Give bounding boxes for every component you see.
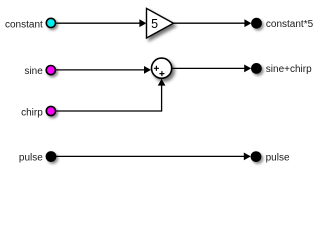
svg-text:pulse: pulse: [266, 152, 290, 163]
svg-text:5: 5: [151, 17, 158, 31]
node pulse left (black source port): [46, 152, 55, 161]
wire pulse -> pulse: [56, 155, 244, 157]
arrowhead into sum left port: [144, 66, 151, 74]
node chirp (magenta source port): [46, 106, 55, 115]
gain block U1 (triangle, value 5): [147, 8, 174, 38]
node constant (cyan source port): [46, 18, 55, 27]
svg-text:sine: sine: [24, 66, 43, 77]
arrowhead into sum bottom port: [158, 79, 166, 86]
arrowhead into right pulse: [244, 153, 251, 161]
arrowhead into sine+chirp: [244, 65, 251, 73]
svg-text:constant: constant: [5, 19, 43, 30]
node sine (magenta source port): [46, 66, 55, 75]
node sine+chirp (black sink port): [252, 64, 261, 73]
wire sine -> sum: [56, 69, 145, 71]
svg-text:pulse: pulse: [19, 153, 43, 164]
sum plus sign (left input): [154, 66, 159, 71]
arrowhead into gain: [139, 19, 146, 27]
node constant*5 (black sink port): [252, 19, 261, 28]
sum plus sign (bottom input): [159, 71, 164, 76]
wire chirp horizontal segment: [56, 110, 161, 112]
node pulse right (black sink port): [251, 152, 260, 161]
wire gain -> constant*5: [174, 22, 246, 24]
arrowhead into constant*5: [244, 19, 251, 27]
svg-text:chirp: chirp: [21, 107, 43, 118]
svg-text:sine+chirp: sine+chirp: [266, 64, 312, 75]
wire chirp vertical segment: [161, 85, 163, 111]
sum block (circle): [152, 58, 172, 78]
wire constant -> gain: [56, 22, 140, 24]
wire sum -> sine+chirp: [172, 67, 245, 69]
svg-text:constant*5: constant*5: [266, 19, 314, 30]
